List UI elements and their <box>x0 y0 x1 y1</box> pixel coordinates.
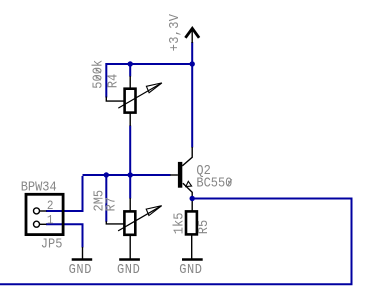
resistor R7 body <box>124 211 135 234</box>
resistor R4 wiper arrowhead <box>146 83 162 93</box>
ground symbol 1 bar <box>72 258 93 260</box>
transistor Q2 base bar <box>178 162 182 188</box>
junction dot base/R7 wiper <box>104 172 109 177</box>
ground symbol 3 bar <box>182 258 203 260</box>
svg-text:GND: GND <box>117 261 140 277</box>
slashed zero marks <box>95 68 232 186</box>
svg-text:BC550: BC550 <box>196 175 232 191</box>
svg-text:BPW34: BPW34 <box>21 179 57 195</box>
svg-text:R4: R4 <box>105 74 121 89</box>
resistor R7 wiper arrow shaft <box>118 206 161 231</box>
svg-text:GND: GND <box>69 261 92 277</box>
wire R4 bottom to R7 top <box>129 126 131 199</box>
wire junction to R7 wiper <box>105 175 107 222</box>
svg-text:R7: R7 <box>103 197 119 211</box>
svg-text:GND: GND <box>179 261 202 277</box>
connector JP5 pin 1 circle <box>34 221 40 227</box>
wire top horizontal net +3,3V <box>106 63 192 65</box>
svg-text:R5: R5 <box>195 220 211 234</box>
junction dot node top collector <box>190 61 195 66</box>
pin JP5 pin2 stub <box>40 210 47 212</box>
wire +3,3V vertical to collector <box>191 42 193 148</box>
svg-text:500k: 500k <box>90 60 106 89</box>
pin R4 bottom stub <box>129 113 131 126</box>
svg-text:1: 1 <box>47 213 54 228</box>
resistor R7 wiper arrowhead <box>146 206 162 216</box>
pin Q2 base stub <box>170 174 178 176</box>
junction dot emitter node <box>190 196 195 201</box>
svg-text:+3,3V: +3,3V <box>166 14 182 51</box>
connector JP5 box <box>26 194 63 234</box>
connector JP5 pin 2 circle <box>34 208 40 214</box>
svg-text:2: 2 <box>47 199 54 214</box>
pin R7 wiper stub <box>106 221 124 224</box>
pin +3,3V supply stub <box>191 29 193 44</box>
resistor R4 wiper arrow shaft <box>118 83 161 108</box>
junction dot base/R4-R7 <box>128 172 133 177</box>
pin R5 top stub <box>191 199 193 212</box>
supply +3,3V arrow <box>185 28 199 37</box>
pin GND1 stub <box>82 247 84 259</box>
wire riser from JP5 pin2 <box>82 176 84 211</box>
svg-text:JP5: JP5 <box>41 236 63 252</box>
resistor R4 body <box>125 89 136 113</box>
ground symbol 2 bar <box>119 258 140 260</box>
wire emitter loop right-bottom <box>0 199 352 285</box>
pin R7 top stub <box>129 198 131 212</box>
pin R4 top stub <box>129 76 131 89</box>
pin R4 wiper stub <box>106 97 124 102</box>
pin R7 bottom lead <box>129 235 131 259</box>
wire base horizontal <box>83 174 171 176</box>
pin JP5 pin1 stub <box>40 223 47 225</box>
pin Q2 emitter <box>183 183 192 198</box>
svg-text:1k5: 1k5 <box>171 213 187 235</box>
wire JP5 pin2 horizontal <box>46 210 84 212</box>
pin R5 bottom lead <box>191 235 193 259</box>
pin Q2 collector <box>182 147 192 166</box>
junction dot node top R4 <box>128 61 133 66</box>
transistor Q2 emitter arrowhead <box>186 181 192 186</box>
wire left drop to R4 wiper <box>105 63 107 98</box>
wire R4 top connection <box>129 64 131 77</box>
resistor R5 body <box>186 211 197 234</box>
wire JP5 pin1 to GND <box>46 224 83 247</box>
